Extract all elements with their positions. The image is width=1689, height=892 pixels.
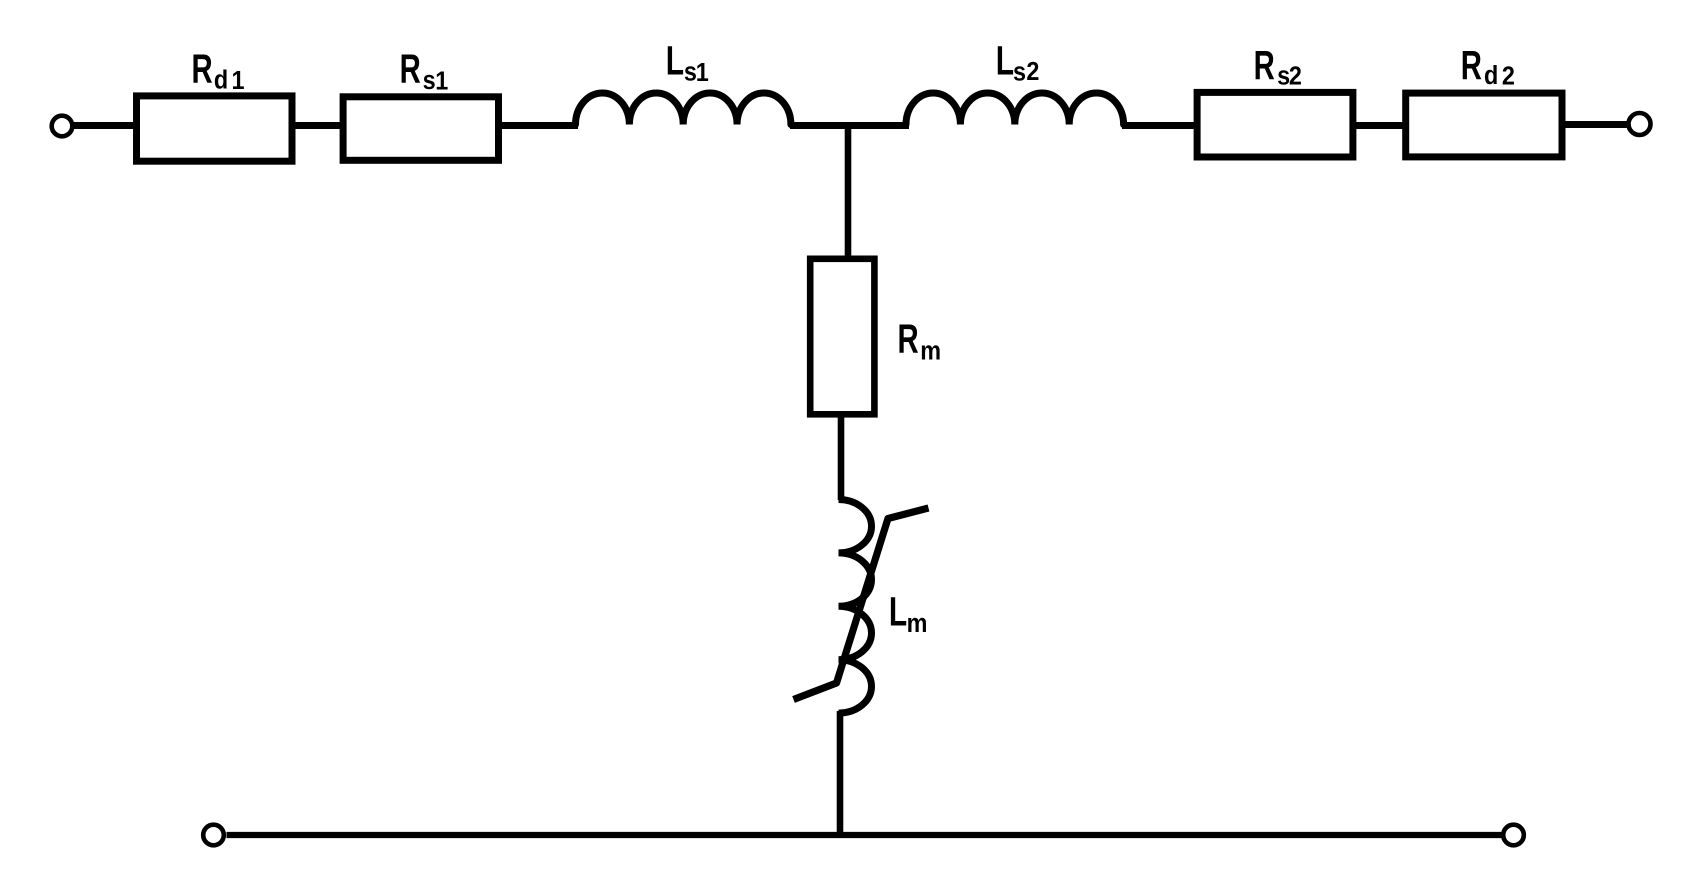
svg-text:2: 2 xyxy=(1289,62,1302,90)
svg-text:s: s xyxy=(1013,58,1026,86)
svg-text:d: d xyxy=(1484,62,1498,90)
svg-text:2: 2 xyxy=(1502,62,1515,90)
svg-text:L: L xyxy=(996,38,1014,84)
svg-text:R: R xyxy=(400,46,421,92)
svg-text:R: R xyxy=(1254,42,1275,88)
svg-text:1: 1 xyxy=(435,67,448,95)
svg-text:L: L xyxy=(889,589,907,635)
svg-text:m: m xyxy=(920,338,941,366)
svg-text:s: s xyxy=(423,67,436,95)
svg-text:1: 1 xyxy=(696,59,709,87)
svg-text:R: R xyxy=(897,316,918,362)
svg-text:1: 1 xyxy=(232,67,245,95)
svg-text:m: m xyxy=(907,610,928,638)
svg-text:R: R xyxy=(191,46,212,92)
svg-text:L: L xyxy=(666,38,684,84)
svg-text:d: d xyxy=(214,66,228,94)
svg-text:2: 2 xyxy=(1026,58,1039,86)
svg-text:R: R xyxy=(1461,42,1482,88)
